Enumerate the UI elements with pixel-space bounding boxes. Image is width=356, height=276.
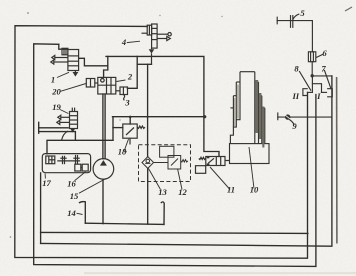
svg-text:13: 13 — [158, 187, 167, 197]
svg-text:II: II — [291, 91, 299, 101]
svg-text:18: 18 — [118, 147, 127, 157]
svg-text:3: 3 — [124, 98, 130, 108]
svg-text:4: 4 — [121, 37, 127, 47]
svg-text:20: 20 — [51, 87, 61, 97]
svg-text:1: 1 — [51, 75, 55, 85]
svg-text:10: 10 — [250, 185, 259, 195]
svg-text:6: 6 — [322, 48, 327, 58]
svg-text:11: 11 — [227, 185, 235, 195]
svg-text:7: 7 — [321, 63, 326, 73]
svg-text:12: 12 — [178, 187, 187, 197]
svg-text:8: 8 — [294, 63, 299, 73]
svg-text:19: 19 — [52, 102, 61, 112]
svg-text:15: 15 — [70, 191, 79, 201]
svg-text:17: 17 — [42, 178, 51, 188]
svg-text:9: 9 — [292, 121, 297, 131]
svg-text:14: 14 — [67, 208, 76, 218]
svg-text:2: 2 — [127, 72, 133, 82]
svg-text:16: 16 — [67, 179, 76, 189]
svg-text:I: I — [316, 91, 321, 101]
svg-text:5: 5 — [300, 8, 305, 18]
